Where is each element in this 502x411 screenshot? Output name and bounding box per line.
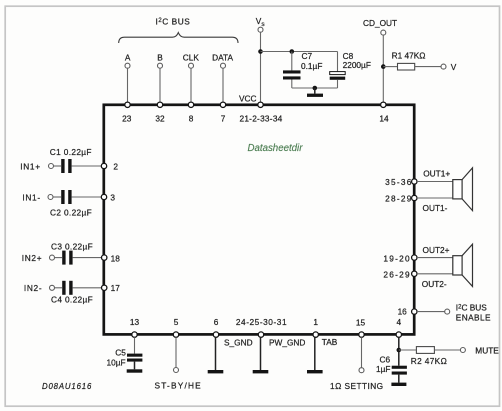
svg-text:24-25-30-31: 24-25-30-31 <box>236 317 287 327</box>
wire C8 top lead <box>337 52 339 72</box>
capacitor C5 10uF <box>107 347 143 367</box>
capacitor C4 0.22uF <box>51 281 93 305</box>
node CD_OUT terminal <box>363 18 397 35</box>
svg-text:14: 14 <box>379 113 389 123</box>
svg-text:A: A <box>125 53 131 63</box>
speaker LS1 <box>453 168 473 211</box>
junction at C7 top <box>290 49 295 54</box>
wire junction to R2 <box>399 349 417 351</box>
wire pin 28-29 to speaker LS1 <box>417 197 453 199</box>
svg-text:32: 32 <box>155 113 165 123</box>
svg-text:5: 5 <box>174 317 179 327</box>
svg-text:2: 2 <box>113 161 118 171</box>
wire IN1+ to C1 <box>54 165 61 167</box>
wire pin 35-36 to speaker LS1 <box>417 181 453 183</box>
svg-text:3: 3 <box>110 192 115 202</box>
junction on Vs wire <box>258 49 263 54</box>
wire pin 24-25-30-31 to ground <box>260 337 262 370</box>
pin 26-29 OUT2- <box>383 270 447 289</box>
svg-text:1: 1 <box>313 317 318 327</box>
junction at R1 <box>381 64 386 69</box>
capacitor C1 0.22uF <box>50 147 92 173</box>
pin 6 S_GND <box>213 317 252 348</box>
svg-text:TAB: TAB <box>322 337 338 347</box>
pin 14 <box>379 102 389 123</box>
svg-text:IN1-: IN1- <box>22 192 40 202</box>
wire pin 4 down to C6 <box>398 337 400 365</box>
wire C7 bottom lead <box>291 80 293 89</box>
pin 7 <box>220 102 225 123</box>
svg-text:23: 23 <box>122 113 132 123</box>
wire pin 6 to ground <box>215 337 217 370</box>
ground below C5 <box>127 369 143 372</box>
svg-text:2200µF: 2200µF <box>343 60 371 70</box>
pin 24-25-30-31 PW_GND <box>236 317 306 348</box>
wire junction to R1 <box>383 66 397 68</box>
ground below C6 <box>391 383 406 386</box>
svg-text:B: B <box>157 53 163 63</box>
svg-text:MUTE: MUTE <box>475 345 499 355</box>
svg-text:Datasheetdir: Datasheetdir <box>248 143 304 154</box>
svg-text:CLK: CLK <box>183 53 200 63</box>
ground PW_GND <box>253 370 269 373</box>
node CLK terminal <box>183 53 200 69</box>
node MUTE terminal <box>460 345 499 355</box>
svg-text:15: 15 <box>356 317 366 327</box>
wire R1 to V terminal <box>415 66 441 68</box>
pin VCC 21-2-33-34 <box>239 93 283 123</box>
svg-text:Vs: Vs <box>256 16 266 28</box>
svg-text:R2 47KΩ: R2 47KΩ <box>411 356 447 366</box>
svg-text:1Ω SETTING: 1Ω SETTING <box>330 381 384 391</box>
svg-text:OUT1+: OUT1+ <box>423 169 450 179</box>
capacitor C2 0.22uF <box>50 190 92 218</box>
wire C5 to ground <box>134 362 136 370</box>
pin 28-29 OUT1- <box>385 193 448 213</box>
wire pin 15 to 1 ohm setting <box>361 337 363 367</box>
speaker LS2 <box>453 244 473 286</box>
svg-text:C1 0.22µF: C1 0.22µF <box>50 147 92 157</box>
svg-text:21-2-33-34: 21-2-33-34 <box>239 113 282 123</box>
wire DATA to pin 7 <box>222 68 224 102</box>
capacitor C8 <box>330 51 371 80</box>
node V terminal <box>441 62 457 72</box>
svg-text:1µF: 1µF <box>376 364 390 374</box>
svg-text:PW_GND: PW_GND <box>269 338 305 348</box>
node Vs terminal <box>256 16 266 32</box>
svg-text:35-36: 35-36 <box>385 177 412 187</box>
svg-text:0.1µF: 0.1µF <box>301 61 322 71</box>
node I2C BUS label <box>156 16 191 26</box>
svg-text:C2 0.22µF: C2 0.22µF <box>50 208 92 218</box>
wire pin 1 to ground <box>314 337 316 370</box>
node IN2+ terminal <box>22 253 55 263</box>
node 1 ohm SETTING terminal <box>330 368 384 391</box>
svg-text:C4 0.22µF: C4 0.22µF <box>51 295 93 305</box>
svg-text:8: 8 <box>189 113 194 123</box>
wire pin 13 to C5 <box>134 337 136 353</box>
svg-text:D08AU1616: D08AU1616 <box>42 382 92 391</box>
wire pin 5 to ST-BY/HE <box>175 337 177 367</box>
svg-text:19-20: 19-20 <box>383 253 410 263</box>
svg-text:ST-BY/HE: ST-BY/HE <box>155 380 202 390</box>
node IN2- terminal <box>24 283 55 293</box>
wire CD_OUT to pin 14 <box>382 35 384 102</box>
svg-text:16: 16 <box>398 307 408 317</box>
svg-text:V: V <box>451 62 457 72</box>
wire Vs to VCC pin <box>260 32 262 102</box>
wire C8 bottom lead <box>337 80 339 88</box>
svg-text:OUT1-: OUT1- <box>423 203 448 213</box>
node I2C BUS ENABLE terminal <box>445 303 491 323</box>
wire pin 16 to I2C BUS ENABLE <box>417 311 445 313</box>
capacitor C3 0.22uF <box>51 242 93 265</box>
pin 3 <box>101 192 115 202</box>
svg-text:I2C BUS: I2C BUS <box>156 16 191 26</box>
svg-text:DATA: DATA <box>212 53 233 63</box>
svg-text:7: 7 <box>221 113 226 123</box>
ground S_GND <box>208 370 224 373</box>
pin 16 <box>398 307 417 317</box>
svg-text:13: 13 <box>130 317 140 327</box>
op-amp U1 IC body <box>104 105 414 335</box>
pin 19-20 OUT2+ <box>383 245 449 263</box>
wire R2 to MUTE <box>434 349 460 351</box>
svg-text:10µF: 10µF <box>107 358 126 368</box>
svg-text:C6: C6 <box>380 354 391 364</box>
pin 2 <box>101 161 118 171</box>
node DATA terminal <box>212 53 233 69</box>
svg-text:OUT2+: OUT2+ <box>423 245 450 255</box>
svg-text:6: 6 <box>214 317 219 327</box>
pin 17 <box>102 283 121 293</box>
junction at ground bus <box>313 86 318 91</box>
resistor R2 47K <box>411 347 447 367</box>
pin 15 <box>356 317 366 337</box>
wire C1 to pin 2 <box>72 165 102 167</box>
wire pin 26-29 to speaker LS2 <box>417 273 453 275</box>
svg-text:CD_OUT: CD_OUT <box>363 18 397 28</box>
capacitor C6 1uF <box>376 354 407 374</box>
svg-text:C3 0.22µF: C3 0.22µF <box>51 242 93 252</box>
node ST-BY/HE terminal <box>155 368 202 391</box>
node A terminal <box>125 53 131 69</box>
wire Vs junction to C8 top <box>261 51 338 53</box>
svg-text:R1 47KΩ: R1 47KΩ <box>392 51 426 61</box>
wire IN2- to C4 <box>55 287 62 289</box>
pin 23 <box>122 102 132 123</box>
svg-text:ENABLE: ENABLE <box>456 312 491 322</box>
svg-text:S_GND: S_GND <box>224 338 253 348</box>
wire CLK to pin 8 <box>190 68 192 102</box>
pin 35-36 OUT1+ <box>385 169 450 187</box>
pin 5 <box>173 317 178 337</box>
svg-text:IN2+: IN2+ <box>22 253 43 263</box>
pin 8 <box>188 102 193 123</box>
svg-text:VCC: VCC <box>239 93 257 103</box>
node IN1- terminal <box>22 192 53 202</box>
pin 18 <box>102 253 121 263</box>
wire C4 to pin 17 <box>73 287 102 289</box>
node B terminal <box>157 53 163 69</box>
svg-text:18: 18 <box>111 253 121 263</box>
svg-text:IN1+: IN1+ <box>20 161 41 171</box>
brace over I2C bus terminals <box>119 33 238 43</box>
node IN1+ terminal <box>20 161 53 171</box>
svg-text:26-29: 26-29 <box>383 270 410 280</box>
pin 1 TAB <box>313 317 338 347</box>
pin 32 <box>155 102 165 123</box>
svg-text:C7: C7 <box>302 51 313 61</box>
wire A to pin 23 <box>127 68 129 102</box>
junction at pin 4 branch <box>397 348 402 353</box>
wire C7/C8 ground bus <box>292 87 338 89</box>
svg-text:OUT2-: OUT2- <box>422 279 447 289</box>
wire B to pin 32 <box>159 68 161 102</box>
wire C6 to ground <box>398 375 400 383</box>
wire IN2+ to C3 <box>55 257 62 259</box>
resistor R1 47K <box>392 51 426 70</box>
pin 13 <box>130 317 140 337</box>
svg-text:28-29: 28-29 <box>385 193 412 203</box>
svg-text:C5: C5 <box>115 347 126 357</box>
wire IN1- to C2 <box>53 196 61 198</box>
wire C7 top lead <box>291 52 293 71</box>
wire C2 to pin 3 <box>72 196 102 198</box>
svg-text:4: 4 <box>396 317 401 327</box>
ground for C7/C8 <box>307 88 323 97</box>
ground TAB <box>307 370 323 373</box>
wire C3 to pin 18 <box>73 257 102 259</box>
pin 4 <box>396 317 401 337</box>
svg-text:17: 17 <box>111 283 121 293</box>
svg-text:IN2-: IN2- <box>24 283 42 293</box>
capacitor C7 <box>283 51 322 80</box>
wire pin 19-20 to speaker LS2 <box>417 257 453 259</box>
svg-text:I2C BUS: I2C BUS <box>456 303 487 313</box>
